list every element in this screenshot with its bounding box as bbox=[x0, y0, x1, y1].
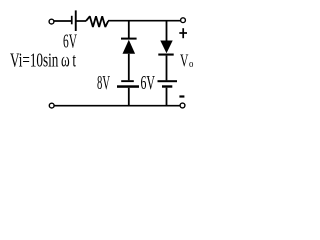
svg-text:6V: 6V bbox=[141, 73, 156, 94]
svg-text:V: V bbox=[180, 51, 188, 71]
svg-text:Vi=10sin ω t: Vi=10sin ω t bbox=[10, 50, 76, 72]
svg-text:8V: 8V bbox=[97, 73, 110, 94]
svg-text:6V: 6V bbox=[63, 32, 77, 53]
svg-text:o: o bbox=[189, 58, 194, 70]
